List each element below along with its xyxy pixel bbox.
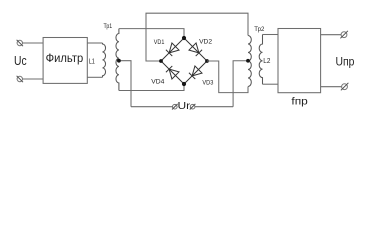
filter box [43, 38, 87, 84]
wire filter to Tp1 primary bottom [87, 76, 102, 78]
diode VD1 [166, 43, 179, 56]
node top junction dot [182, 36, 186, 40]
svg-text:Uпр: Uпр [336, 54, 355, 68]
diode VD3 [189, 66, 202, 79]
node right junction dot [205, 59, 209, 63]
wire fnp box to terminal bottom right [321, 86, 342, 88]
svg-text:VD4: VD4 [151, 79, 164, 86]
bridge diamond edge top-right [184, 38, 207, 61]
bridge diamond edge bottom-right [184, 61, 207, 84]
terminal Ur left [172, 104, 178, 110]
transformer Tp2 secondary winding L2 [259, 35, 262, 85]
svg-text:fпр: fпр [291, 96, 308, 108]
terminal Uc bottom [17, 76, 23, 82]
node bottom junction dot [182, 82, 186, 86]
wire fnp box to terminal top right [321, 34, 342, 36]
Tp2 center tap wire to Ur bus [233, 61, 248, 107]
transformer Tp1 secondary winding [116, 29, 119, 91]
svg-text:Тр2: Тр2 [254, 26, 264, 33]
wire Tp1 secondary bottom to bridge bottom node [119, 84, 184, 91]
junction dot Tp2 center tap [246, 59, 250, 63]
svg-text:Фильтр: Фильтр [46, 53, 84, 65]
svg-text:Тр1: Тр1 [104, 23, 113, 30]
wire terminal to filter bottom [23, 78, 43, 80]
wire Tp1 secondary top to bridge top node [119, 29, 184, 38]
bridge diamond edge top-left [161, 38, 184, 61]
diode VD2 [189, 43, 202, 56]
svg-text:L1: L1 [89, 58, 95, 65]
white mask behind Ur label [177, 101, 192, 112]
transformer Tp2 primary winding [248, 36, 251, 87]
Tp1 center tap wire to Ur bus [119, 61, 131, 107]
junction dot Tp1 center tap [117, 59, 121, 63]
wire bridge right node down and across to Tp2 primary bottom [207, 61, 248, 93]
diode VD4 [166, 66, 179, 79]
fnp box [278, 29, 321, 93]
svg-text:L2: L2 [263, 58, 270, 65]
node left junction dot [159, 59, 163, 63]
bridge diamond edge bottom-left [161, 61, 184, 84]
svg-text:Ur: Ur [178, 100, 191, 112]
terminal Ur right [190, 104, 196, 110]
svg-text:VD3: VD3 [202, 80, 213, 87]
transformer Tp1 primary winding L1 [103, 43, 106, 77]
wire L2 top to fnp box [263, 34, 279, 36]
wire L2 bottom to fnp box [263, 83, 279, 85]
svg-text:VD2: VD2 [199, 38, 212, 45]
Ur bus wire [131, 106, 233, 108]
svg-text:VD1: VD1 [154, 39, 165, 46]
wire terminal to filter top [23, 42, 43, 44]
wire filter to Tp1 primary top [87, 42, 102, 44]
terminal Uc top [17, 40, 23, 46]
terminal Unp top [340, 31, 348, 39]
terminal Unp bottom [341, 83, 349, 91]
wire bridge left node up and across to Tp2 primary top [146, 13, 248, 61]
svg-text:Uc: Uc [14, 54, 27, 68]
